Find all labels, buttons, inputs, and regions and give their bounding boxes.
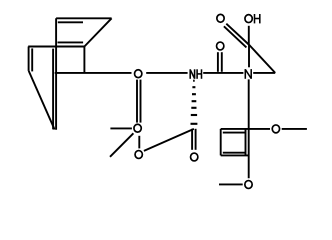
wire mid inner double-bond line bbox=[58, 41, 84, 43]
wire O2-O3 bond bbox=[138, 136, 140, 149]
node O9 methoxy oxygen bbox=[272, 125, 279, 133]
node OH hydroxyl label: letter H bbox=[254, 14, 256, 23]
wire chain vertical from N down bbox=[248, 79, 250, 178]
node O7 acid carbonyl oxygen bbox=[217, 14, 224, 22]
wire square top inner double-bond line bbox=[223, 132, 245, 134]
node NH amide nitrogen label: letter H bbox=[196, 69, 198, 79]
wire far-left vertical bbox=[28, 47, 30, 71]
wire C-OH bond bbox=[248, 26, 250, 45]
wire square ring right edge bbox=[245, 129, 247, 156]
node O1 ester oxygen bbox=[135, 70, 142, 78]
wire C-N vertical bond bbox=[248, 45, 250, 67]
node NH amide nitrogen label: letter N bbox=[189, 69, 191, 79]
wire C-CH2 diagonal bond bbox=[249, 45, 275, 73]
node O8 methoxy oxygen bbox=[245, 181, 252, 189]
wire O1 to NH bond bbox=[146, 72, 187, 74]
wire square ring left edge bbox=[220, 129, 222, 156]
wire front-right vertical bbox=[83, 47, 85, 73]
node O2 oxygen bbox=[134, 124, 141, 132]
wire front-left long vertical bbox=[55, 18, 57, 130]
wire NH to amide C to ring N bbox=[203, 72, 243, 74]
wire methyl on O2 diagonal bbox=[110, 133, 133, 157]
wire methyl on O8 bbox=[219, 183, 243, 185]
wire lower-left diagonal bbox=[29, 71, 55, 130]
wire square bottom inner double-bond line bbox=[223, 152, 245, 154]
wire top inner double-bond line bbox=[58, 21, 83, 23]
wire far-left inner double-bond line bbox=[31, 48, 33, 71]
node N ring nitrogen label: letter N bbox=[244, 69, 246, 79]
node O6 amide carbonyl oxygen bbox=[217, 42, 224, 50]
wire methyl on O2 horizontal bbox=[110, 127, 131, 129]
wire O1=O2 double bond bbox=[136, 80, 138, 123]
wire bond to ester O1 bbox=[55, 72, 132, 74]
node O of hydroxyl OH bbox=[245, 15, 252, 23]
wire roof right diagonal bbox=[84, 18, 111, 46]
wire front-left inner double-bond line bbox=[52, 49, 54, 130]
wire O3-C4 diagonal bond bbox=[144, 129, 194, 151]
hashed stereo bond NH-C4 bbox=[191, 81, 198, 124]
wire C4=O5 double bond bbox=[191, 129, 193, 150]
wire COOH C=O double bond bbox=[226, 24, 249, 45]
wire top edge of roof ring bbox=[56, 17, 112, 19]
wire square ring top edge extending to O9 bbox=[221, 128, 270, 130]
wire mid horizontal bbox=[28, 46, 84, 48]
wire amide C=O double bond bbox=[217, 52, 219, 72]
node O3 oxygen bbox=[135, 151, 142, 159]
node O5 carbonyl oxygen bbox=[191, 153, 198, 161]
wire square ring bottom edge bbox=[221, 154, 249, 156]
wire N-CH2 bond bbox=[253, 72, 275, 74]
wire methyl on O9 bbox=[282, 128, 307, 130]
